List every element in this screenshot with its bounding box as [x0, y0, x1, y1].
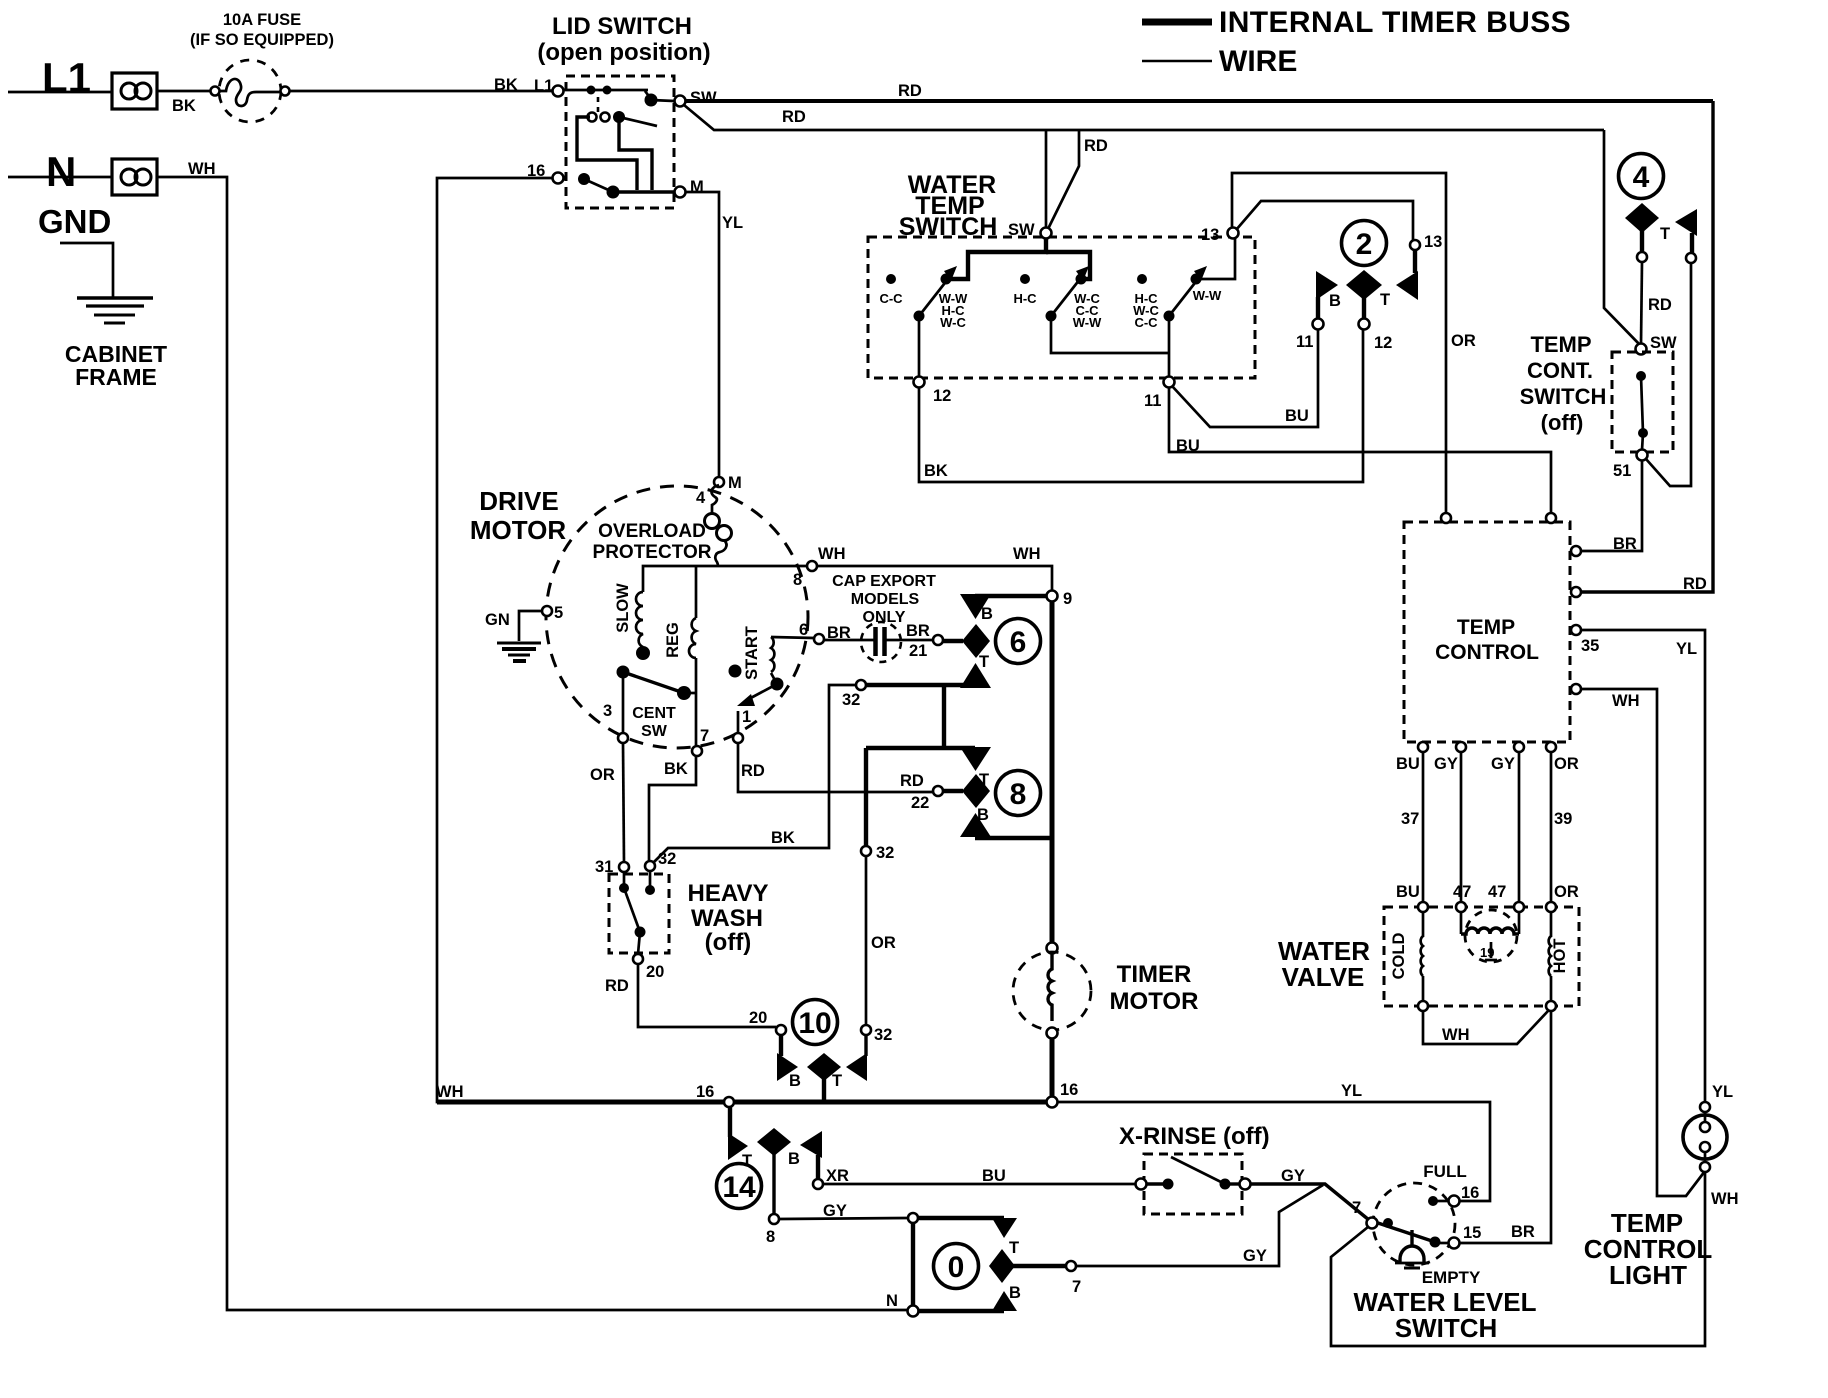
terminal 3: [618, 733, 628, 743]
svg-text:RD: RD: [605, 977, 629, 995]
cold solenoid: [1421, 912, 1423, 1001]
lid switch terminal L1: [553, 86, 564, 97]
terminal 7 at cam 0: [1066, 1261, 1076, 1271]
motor internal dot: [729, 665, 742, 678]
svg-text:11: 11: [1144, 392, 1161, 410]
svg-text:L1: L1: [42, 54, 91, 101]
svg-text:L1: L1: [534, 77, 553, 95]
terminal 20: [633, 954, 643, 964]
svg-text:MOTOR: MOTOR: [470, 515, 567, 545]
svg-text:SW: SW: [1650, 334, 1677, 352]
svg-text:47: 47: [1488, 883, 1506, 901]
svg-text:SW: SW: [690, 89, 717, 107]
svg-text:BU: BU: [1285, 407, 1309, 425]
buss link cam6 T to cam8 T: [942, 685, 946, 748]
wire 12 vertical inside box: [918, 321, 921, 377]
terminal 22: [933, 786, 943, 796]
wire RD from corner to temp cont switch SW: [1604, 130, 1641, 346]
temp control right terminal RD: [1571, 587, 1581, 597]
fuse F1 10A: [211, 60, 290, 122]
svg-text:21: 21: [909, 642, 927, 660]
wire WH from N down left side to bottom: [157, 177, 908, 1310]
node 6: [814, 634, 824, 644]
water level terminal 7: [1367, 1218, 1378, 1229]
wire GY 47 right to water valve: [1518, 752, 1521, 903]
svg-text:WH: WH: [436, 1083, 464, 1101]
cam 8 circle: [996, 771, 1041, 816]
svg-text:YL: YL: [1712, 1083, 1733, 1101]
lid switch pole A contact line: [564, 89, 648, 92]
terminal 8 at cam 14: [769, 1214, 779, 1224]
lid switch terminal M: [675, 187, 686, 198]
svg-text:WASH: WASH: [691, 905, 763, 932]
overload protector element: [705, 485, 732, 566]
hot solenoid: [1549, 912, 1551, 1001]
svg-text:OVERLOAD: OVERLOAD: [598, 521, 706, 542]
terminal 21: [933, 635, 943, 645]
svg-text:32: 32: [874, 1026, 892, 1044]
lid switch terminal 16: [553, 173, 564, 184]
svg-text:GY: GY: [1243, 1247, 1267, 1265]
reg winding: [689, 566, 696, 746]
svg-text:9: 9: [1063, 590, 1072, 608]
start winding: [771, 637, 814, 672]
svg-text:MOTOR: MOTOR: [1110, 988, 1199, 1015]
internal timer buss 16 horizontal: [437, 1100, 1052, 1105]
cam 6 B triangle: [960, 594, 991, 619]
svg-text:22: 22: [911, 794, 929, 812]
svg-text:M: M: [728, 474, 742, 492]
svg-text:CENT: CENT: [632, 705, 676, 722]
svg-text:YL: YL: [722, 214, 743, 232]
svg-text:(off): (off): [705, 929, 752, 956]
lid switch internal staircase 1: [619, 119, 652, 190]
wire 7 to bottom loop: [1331, 1172, 1705, 1346]
wire N lead-in: [8, 176, 112, 179]
buss vertical from cam8 B down (OR): [864, 748, 868, 846]
temp control bottom terminals: [1418, 742, 1428, 752]
wire WH under valve: [1423, 1011, 1548, 1044]
terminal 12 of water temp switch: [914, 377, 925, 388]
svg-text:6: 6: [799, 621, 808, 639]
cent sw arm: [617, 666, 630, 679]
start switch arm: [771, 678, 784, 691]
wire WH-16 from lid switch down left and across bottom buss: [437, 178, 727, 1102]
cam 4 terminal under diamond: [1637, 252, 1647, 262]
cam 14 B triangle: [800, 1131, 822, 1158]
svg-text:T: T: [1380, 291, 1390, 309]
svg-text:T: T: [742, 1152, 752, 1170]
svg-text:OR: OR: [1451, 332, 1476, 350]
wire GN to ground: [519, 611, 542, 641]
svg-text:GY: GY: [1491, 755, 1515, 773]
wire OR from 13 up over to temp control: [1232, 173, 1446, 513]
svg-text:3: 3: [603, 702, 612, 720]
terminal 51: [1637, 450, 1648, 461]
svg-text:4: 4: [1633, 161, 1650, 194]
wire OR 39 to water valve: [1550, 752, 1553, 903]
wire RD drop to water temp switch SW: [1045, 130, 1048, 227]
svg-text:BU: BU: [982, 1167, 1006, 1185]
switch arm 1: [941, 274, 952, 285]
svg-text:(IF SO EQUIPPED): (IF SO EQUIPPED): [190, 31, 334, 49]
node 9: [1047, 591, 1058, 602]
cam 0 diamond: [989, 1249, 1015, 1283]
connector plug N: [112, 159, 157, 195]
svg-text:RD: RD: [741, 762, 765, 780]
svg-text:4: 4: [696, 489, 706, 507]
water level terminal 16: [1449, 1196, 1460, 1207]
svg-text:X-RINSE (off): X-RINSE (off): [1119, 1123, 1270, 1150]
terminal 32 heavy wash: [645, 861, 655, 871]
contact dot H-C: [1020, 274, 1030, 284]
water temp switch common feed buss: [948, 238, 1046, 279]
connector plug L1: [112, 73, 157, 109]
wire BU from 11 down to temp control: [1169, 387, 1551, 513]
switch arm 2: [1076, 274, 1087, 285]
cam 4 diamond: [1625, 203, 1659, 233]
temp control light lamp: [1683, 1102, 1727, 1172]
wire YL from lid switch M down to drive motor: [686, 192, 719, 477]
water valve dashed box: [1384, 907, 1579, 1006]
svg-text:WH: WH: [1442, 1026, 1470, 1044]
svg-text:YL: YL: [1341, 1082, 1362, 1100]
svg-text:16: 16: [696, 1083, 714, 1101]
cam 14 diamond: [757, 1128, 791, 1156]
cam 2 pin 12: [1359, 319, 1370, 330]
svg-text:START: START: [743, 626, 761, 680]
svg-text:CAP EXPORT: CAP EXPORT: [832, 573, 936, 590]
svg-text:WH: WH: [188, 160, 216, 178]
svg-text:12: 12: [933, 387, 951, 405]
lid switch bottom link to M: [613, 190, 674, 193]
wire BK from 12 to cam 2: [919, 328, 1363, 482]
svg-text:(open position): (open position): [537, 39, 710, 66]
legend: internal timer buss sample line: [1142, 19, 1212, 26]
wire WH corner to node 9: [1050, 566, 1052, 591]
svg-text:1: 1: [742, 708, 751, 726]
svg-text:GN: GN: [485, 611, 510, 629]
svg-text:FULL: FULL: [1423, 1162, 1466, 1181]
cam 6 T triangle: [960, 663, 991, 688]
mixing solenoid 19: [1461, 910, 1519, 962]
cam 2 diamond: [1346, 270, 1382, 300]
svg-text:CONT.: CONT.: [1527, 358, 1593, 383]
cam 2 B triangle: [1316, 271, 1338, 300]
cam 10 circle: [793, 1000, 838, 1045]
svg-text:RD: RD: [898, 82, 922, 100]
terminal 31: [619, 862, 629, 872]
svg-text:6: 6: [1010, 626, 1027, 659]
lid switch internal staircase 2: [577, 117, 637, 190]
svg-text:LIGHT: LIGHT: [1609, 1260, 1687, 1290]
full contact: [1428, 1196, 1438, 1206]
lid switch mechanical link dashes: [597, 97, 600, 117]
timer motor terminal top: [1047, 943, 1058, 954]
svg-text:7: 7: [700, 727, 709, 745]
wire OR from terminal 3 to heavy wash 31: [623, 743, 624, 862]
svg-text:0: 0: [948, 1251, 965, 1284]
node SW of water temp switch: [1041, 228, 1052, 239]
terminal 20 at cam 10: [776, 1025, 786, 1035]
terminal 1: [733, 733, 743, 743]
wire RD from SW to top right corner: [685, 99, 1713, 103]
node N: [908, 1306, 919, 1317]
svg-text:HEAVY: HEAVY: [688, 880, 769, 907]
water level terminal 15: [1449, 1238, 1460, 1249]
terminal M of motor: [714, 477, 724, 487]
svg-text:BK: BK: [664, 760, 688, 778]
temp control right terminal 35: [1571, 625, 1581, 635]
bell float symbol: [1395, 1230, 1429, 1268]
contact dot H-C 2: [1137, 274, 1147, 284]
svg-text:B: B: [788, 1150, 800, 1168]
svg-text:WH: WH: [1612, 692, 1640, 710]
terminal 32 at cam 6: [856, 680, 866, 690]
lid switch S1 dashed box: [566, 76, 674, 208]
svg-text:47: 47: [1453, 883, 1471, 901]
svg-text:39: 39: [1554, 810, 1572, 828]
svg-text:37: 37: [1401, 810, 1419, 828]
svg-text:GY: GY: [1434, 755, 1458, 773]
svg-text:T: T: [1660, 225, 1670, 243]
svg-text:BU: BU: [1176, 437, 1200, 455]
svg-text:C-C: C-C: [1134, 315, 1158, 330]
svg-text:B: B: [789, 1072, 801, 1090]
svg-text:BR: BR: [906, 622, 930, 640]
node 13 of water temp switch: [1228, 228, 1239, 239]
wire BU 37 to water valve: [1422, 752, 1425, 903]
wire RD vertical right edge down to temp control: [1581, 101, 1713, 592]
wire contact 3 to terminal 13: [1196, 238, 1235, 279]
svg-text:12: 12: [1374, 334, 1392, 352]
svg-text:OR: OR: [590, 766, 615, 784]
water temp switch dashed box: [868, 237, 1255, 378]
cam 0 circle: [934, 1244, 979, 1289]
x-rinse right terminal: [1240, 1179, 1251, 1190]
svg-text:51: 51: [1613, 462, 1631, 480]
heavy wash switch arm: [619, 883, 629, 893]
svg-text:OR: OR: [1554, 755, 1579, 773]
svg-text:WH: WH: [818, 545, 846, 563]
capacitor C1 export models: [824, 622, 932, 662]
timer cam 2 circle: [1342, 221, 1387, 266]
svg-text:W-W: W-W: [1193, 288, 1222, 303]
temp control top terminal BU: [1546, 513, 1556, 523]
lid switch pole C blade and dots: [578, 173, 590, 185]
svg-text:MODELS: MODELS: [851, 591, 920, 608]
x-rinse dashed box: [1144, 1154, 1242, 1214]
cam 0 T buss wire: [917, 1216, 1004, 1220]
svg-text:W-W: W-W: [1073, 315, 1102, 330]
svg-text:REG: REG: [664, 622, 682, 658]
svg-text:13: 13: [1201, 226, 1219, 244]
svg-text:20: 20: [749, 1009, 767, 1027]
drive motor dashed circle: [546, 486, 808, 748]
svg-text:TEMP: TEMP: [1457, 616, 1515, 639]
terminal 7: [692, 746, 702, 756]
node 16 right junction: [1047, 1097, 1058, 1108]
svg-text:7: 7: [1072, 1278, 1081, 1296]
svg-text:35: 35: [1581, 637, 1599, 655]
wire BK fuse to lid switch: [290, 90, 553, 93]
ground symbol cabinet frame: [77, 298, 153, 323]
temp cont switch dashed box: [1612, 352, 1673, 452]
svg-text:W-C: W-C: [940, 315, 966, 330]
wire 51 to cam 4 T: [1646, 263, 1691, 486]
svg-text:SWITCH: SWITCH: [1520, 384, 1607, 409]
svg-text:BR: BR: [1511, 1223, 1535, 1241]
svg-text:H-C: H-C: [1013, 291, 1037, 306]
wire GND to cabinet frame ground: [60, 243, 113, 298]
svg-text:2: 2: [1356, 228, 1373, 261]
wire BU XR to x-rinse: [823, 1183, 1136, 1186]
temp control top terminal OR: [1441, 513, 1451, 523]
wire YL 16 to water level switch: [1057, 1102, 1490, 1201]
wire RD second run from SW diagonal: [684, 105, 1604, 130]
svg-text:15: 15: [1463, 1224, 1481, 1242]
water level switch dashed circle: [1373, 1183, 1455, 1265]
node 8: [807, 561, 817, 571]
cam 2 pin 11: [1313, 319, 1324, 330]
switch arm 3: [1191, 274, 1202, 285]
temp cont switch contacts: [1636, 371, 1646, 381]
terminal 13 at cam 2: [1410, 240, 1420, 250]
svg-text:T: T: [832, 1072, 842, 1090]
cam 10 B triangle: [779, 1035, 783, 1056]
cam 10 T triangle: [846, 1053, 867, 1081]
wire WH from temp control down to lamp: [1581, 689, 1705, 1196]
svg-text:COLD: COLD: [1390, 933, 1408, 980]
lid switch pole B open blade: [619, 117, 657, 126]
svg-text:WIRE: WIRE: [1219, 45, 1297, 78]
svg-text:N: N: [886, 1292, 898, 1310]
svg-text:GND: GND: [38, 203, 111, 240]
svg-text:10: 10: [798, 1007, 831, 1040]
svg-text:B: B: [1009, 1284, 1021, 1302]
timer motor dashed circle: [1013, 952, 1091, 1030]
svg-text:GY: GY: [1281, 1167, 1305, 1185]
svg-text:32: 32: [658, 850, 676, 868]
wire RD from terminal 1 to cam 8: [738, 743, 933, 792]
wire WH inside motor to node 8: [718, 565, 1050, 568]
terminal 32 mid: [861, 846, 871, 856]
cam 0 vertical link: [911, 1222, 915, 1307]
svg-text:BK: BK: [924, 462, 948, 480]
wire BK from cam6-32 to heavy wash: [653, 685, 856, 863]
svg-text:B: B: [981, 605, 993, 623]
svg-text:7: 7: [1352, 1199, 1361, 1217]
svg-text:RD: RD: [1648, 296, 1672, 314]
water valve top terminals: [1418, 902, 1428, 912]
slow winding: [636, 592, 650, 660]
wire RD jog to water temp switch SW: [1048, 130, 1079, 229]
svg-text:DRIVE: DRIVE: [479, 486, 558, 516]
svg-text:16: 16: [1461, 1184, 1479, 1202]
legend: wire sample line: [1142, 60, 1212, 63]
lid switch terminal SW: [675, 96, 686, 107]
terminal XR: [813, 1179, 823, 1189]
temp control right terminal WH: [1571, 684, 1581, 694]
cam 6 circle: [996, 619, 1041, 664]
svg-text:T: T: [1009, 1239, 1019, 1257]
cam 14 circle: [717, 1164, 762, 1209]
svg-text:INTERNAL TIMER BUSS: INTERNAL TIMER BUSS: [1219, 6, 1571, 39]
svg-text:BK: BK: [172, 97, 196, 115]
node 16 left junction: [724, 1097, 734, 1107]
ground symbol at motor: [497, 643, 541, 661]
svg-text:10A FUSE: 10A FUSE: [223, 11, 301, 29]
wire BR 51 to temp control: [1581, 460, 1642, 551]
svg-text:T: T: [979, 653, 989, 671]
cam 6 diamond: [962, 624, 990, 658]
wire arm2 common tie to 11: [1051, 321, 1169, 353]
x-rinse left terminal: [1136, 1179, 1147, 1190]
wire connector to fuse: [157, 90, 210, 93]
water valve bottom terminals: [1418, 1001, 1428, 1011]
lid switch node to SW: [645, 91, 651, 99]
terminal 5: [542, 606, 552, 616]
timer buss vertical to 16 junction: [1050, 1038, 1055, 1102]
wire GY 8 to cam 0: [779, 1218, 908, 1219]
svg-text:RD: RD: [1084, 137, 1108, 155]
svg-text:RD: RD: [1683, 575, 1707, 593]
wire BR valve to water level 15: [1459, 1011, 1551, 1243]
svg-text:5: 5: [554, 604, 563, 622]
heavy wash dashed box: [609, 874, 669, 953]
timer motor terminal bottom: [1047, 1028, 1058, 1039]
svg-text:LID SWITCH: LID SWITCH: [552, 13, 692, 40]
cam 8 diamond: [962, 774, 990, 808]
cam 8 B triangle: [960, 813, 991, 837]
svg-text:YL: YL: [1676, 640, 1697, 658]
lid switch pole B contacts: [588, 113, 597, 122]
timer cam 4 circle: [1619, 154, 1664, 199]
svg-text:13: 13: [1424, 233, 1442, 251]
temp control right terminal BR: [1571, 546, 1581, 556]
svg-text:8: 8: [766, 1228, 775, 1246]
svg-text:C-C: C-C: [879, 291, 903, 306]
svg-text:WH: WH: [1013, 545, 1041, 563]
water level blade: [1383, 1218, 1393, 1228]
svg-text:11: 11: [1296, 333, 1313, 351]
svg-text:8: 8: [1010, 778, 1027, 811]
wire YL from 35 to right edge: [1581, 630, 1705, 1102]
cam 14 T triangle: [728, 1107, 732, 1137]
svg-text:RD: RD: [782, 108, 806, 126]
timer buss vertical 9 to timer motor: [1050, 601, 1055, 944]
wire BK from terminal 7 to heavy wash 32: [649, 756, 696, 861]
cam 4 T triangle: [1675, 209, 1697, 236]
svg-text:32: 32: [876, 844, 894, 862]
cam 0 T triangle: [992, 1218, 1017, 1238]
svg-text:B: B: [1329, 292, 1341, 310]
svg-text:SW: SW: [641, 723, 668, 740]
cam 2 T triangle: [1396, 271, 1418, 300]
svg-text:BK: BK: [494, 76, 518, 94]
wire L1 lead-in: [8, 91, 112, 94]
wire OR 32 down to cam 10: [865, 856, 868, 1026]
svg-text:OR: OR: [1554, 883, 1579, 901]
svg-text:BR: BR: [1613, 535, 1637, 553]
svg-text:TIMER: TIMER: [1117, 961, 1192, 988]
svg-text:RD: RD: [900, 772, 924, 790]
timer motor coil: [1048, 953, 1052, 1021]
svg-text:PROTECTOR: PROTECTOR: [593, 542, 712, 563]
terminal 32 at cam 10: [861, 1025, 871, 1035]
cam 0 junction top: [908, 1213, 918, 1223]
cam 8 T triangle: [960, 747, 991, 771]
